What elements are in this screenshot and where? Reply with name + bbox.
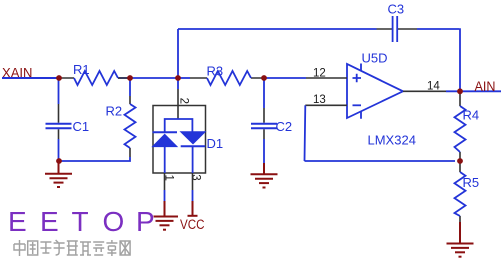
power stubs <box>360 64 362 119</box>
svg-text:E: E <box>40 206 59 237</box>
wire top rail right + down to output node <box>417 28 460 91</box>
resistor R3 <box>190 64 264 86</box>
svg-text:3: 3 <box>190 174 202 180</box>
pin 13 lead <box>305 104 347 106</box>
svg-text:R4: R4 <box>463 108 480 123</box>
wire XAIN input to node1 <box>2 77 59 79</box>
svg-text:O: O <box>103 206 125 237</box>
node junction at R1/R2 <box>127 75 133 81</box>
node junction at R4/R5 <box>457 158 463 164</box>
D1 body box <box>153 106 206 174</box>
resistor R4 <box>455 91 480 161</box>
svg-text:VCC: VCC <box>180 217 205 232</box>
svg-text:E: E <box>8 206 27 237</box>
svg-text:C2: C2 <box>276 119 293 134</box>
ground (left, under C1/R2 rail) <box>45 161 72 187</box>
svg-text:C3: C3 <box>388 2 405 17</box>
resistor R1 <box>59 62 128 85</box>
capacitor C3 <box>377 2 418 43</box>
svg-text:R1: R1 <box>73 62 90 77</box>
svg-text:P: P <box>136 206 155 237</box>
node junction at bottom-left ground rail <box>56 158 62 164</box>
plus input marker <box>353 74 362 82</box>
wire node1 to R1 / node2 to R1 (blue stubs) <box>118 77 130 79</box>
ground (under C2) <box>251 163 278 188</box>
wire top rail left (to C3) <box>178 28 377 30</box>
pin 12 lead <box>306 77 347 79</box>
svg-text:2: 2 <box>177 98 189 104</box>
D1 left diode (anode up) <box>153 131 178 133</box>
wire output to AIN node and right edge <box>446 90 501 92</box>
svg-text:LMX324: LMX324 <box>368 133 416 148</box>
op-amp U5D <box>305 51 446 148</box>
D1 right diode (anode down) <box>181 132 206 144</box>
wire node2 to node3 <box>130 77 178 79</box>
D1 internal bracket <box>165 119 193 132</box>
capacitor C1 <box>46 78 90 161</box>
resistor R5 <box>455 161 480 222</box>
node junction at output AIN <box>457 88 463 94</box>
diode D1 (dual clamping diode) <box>153 78 224 181</box>
svg-text:R3: R3 <box>207 64 224 79</box>
svg-text:14: 14 <box>427 81 440 93</box>
svg-text:R2: R2 <box>106 104 123 119</box>
resistor R2 <box>106 78 136 157</box>
wire bottom-left rail (R2 bottom to node5) <box>59 157 130 161</box>
wire node3 up to top rail <box>177 29 179 78</box>
power VCC <box>180 201 205 232</box>
EETOP watermark logo <box>8 206 155 237</box>
wire D1 pin3 down <box>192 173 194 190</box>
svg-text:D1: D1 <box>207 136 224 151</box>
ground (under D1 pin1) <box>151 201 178 230</box>
wire D1 pin1 down <box>164 173 166 190</box>
wire node4 to op-amp pin12 <box>264 77 306 79</box>
wire feedback from pin13 <box>305 105 456 161</box>
wire node3 to R3 <box>178 77 190 79</box>
node junction at R3/D1 top <box>175 75 181 81</box>
node junction at XAIN/C1 <box>56 75 62 81</box>
capacitor C2 <box>251 78 292 163</box>
minus input marker <box>353 104 362 106</box>
svg-text:13: 13 <box>313 94 326 106</box>
svg-text:12: 12 <box>313 67 326 79</box>
pin 14 lead <box>403 90 446 92</box>
svg-text:R5: R5 <box>463 175 480 190</box>
D1 pin 2 wire <box>177 78 179 89</box>
watermark Chinese caption (drawn glyphs) <box>14 240 130 256</box>
node junction at R3/C2 <box>261 75 267 81</box>
ground (under R5) <box>447 222 474 257</box>
svg-text:AIN: AIN <box>475 79 496 94</box>
svg-text:C1: C1 <box>73 119 90 134</box>
svg-text:T: T <box>72 206 89 237</box>
svg-text:U5D: U5D <box>362 51 388 66</box>
